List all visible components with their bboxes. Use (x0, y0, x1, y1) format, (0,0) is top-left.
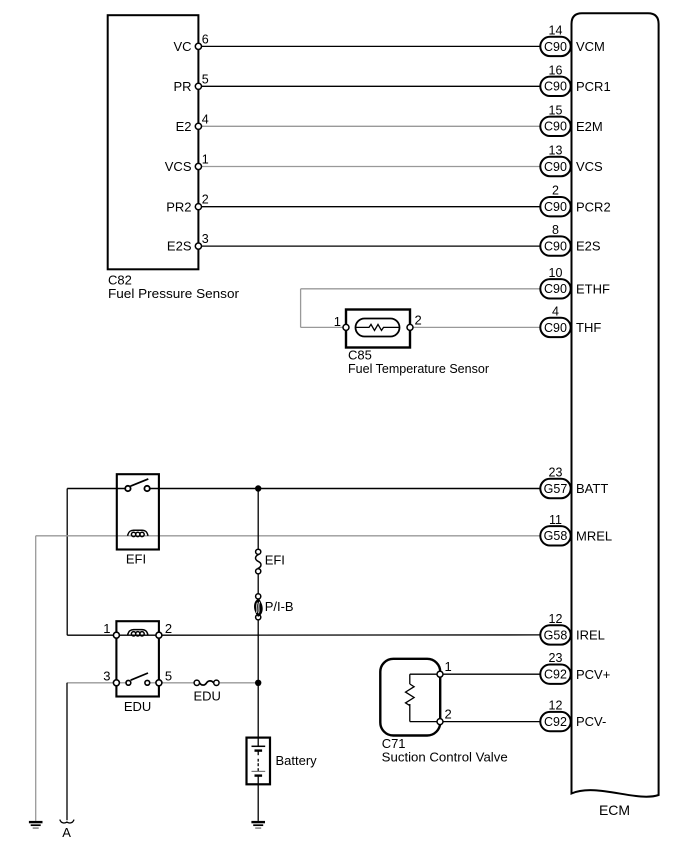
svg-text:EDU: EDU (193, 689, 220, 704)
svg-text:2: 2 (415, 313, 422, 328)
svg-text:Fuel Temperature Sensor: Fuel Temperature Sensor (348, 361, 490, 376)
svg-text:1: 1 (202, 153, 209, 167)
svg-text:P/I-B: P/I-B (265, 599, 294, 614)
svg-text:3: 3 (202, 232, 209, 246)
svg-text:EFI: EFI (265, 552, 285, 567)
svg-text:E2S: E2S (576, 239, 601, 254)
svg-text:C90: C90 (544, 282, 567, 296)
svg-text:4: 4 (202, 112, 209, 126)
svg-text:C90: C90 (544, 160, 567, 174)
svg-text:10: 10 (549, 266, 563, 280)
svg-text:3: 3 (103, 669, 110, 684)
svg-text:15: 15 (549, 103, 563, 117)
svg-text:5: 5 (202, 72, 209, 86)
svg-text:E2M: E2M (576, 119, 603, 134)
svg-text:C90: C90 (544, 321, 567, 335)
svg-text:E2: E2 (176, 119, 192, 134)
svg-text:12: 12 (549, 612, 563, 626)
svg-text:11: 11 (549, 513, 562, 527)
svg-text:EFI: EFI (126, 552, 146, 567)
svg-text:C90: C90 (544, 240, 567, 254)
svg-text:1: 1 (103, 621, 110, 636)
svg-text:E2S: E2S (167, 239, 192, 254)
svg-text:C92: C92 (544, 668, 567, 682)
svg-text:C92: C92 (544, 715, 567, 729)
svg-text:16: 16 (549, 63, 563, 77)
svg-text:PCR1: PCR1 (576, 79, 611, 94)
svg-text:VC: VC (173, 39, 191, 54)
svg-text:THF: THF (576, 320, 601, 335)
svg-text:5: 5 (165, 669, 172, 684)
svg-text:C90: C90 (544, 80, 567, 94)
svg-text:VCS: VCS (576, 159, 603, 174)
svg-text:1: 1 (334, 314, 341, 329)
svg-text:13: 13 (549, 144, 563, 158)
svg-text:G57: G57 (544, 482, 568, 496)
svg-text:VCM: VCM (576, 39, 605, 54)
svg-text:VCS: VCS (165, 159, 192, 174)
svg-text:C90: C90 (544, 40, 567, 54)
svg-text:A: A (62, 825, 71, 840)
svg-text:G58: G58 (544, 529, 568, 543)
svg-text:C90: C90 (544, 120, 567, 134)
svg-text:IREL: IREL (576, 628, 605, 643)
svg-text:PR2: PR2 (166, 199, 191, 214)
svg-text:23: 23 (549, 466, 563, 480)
svg-text:2: 2 (552, 184, 559, 198)
svg-text:C90: C90 (544, 200, 567, 214)
svg-text:2: 2 (202, 193, 209, 207)
svg-text:23: 23 (549, 651, 563, 665)
svg-text:14: 14 (549, 23, 563, 37)
svg-text:MREL: MREL (576, 528, 612, 543)
svg-text:EDU: EDU (124, 699, 151, 714)
svg-text:BATT: BATT (576, 481, 608, 496)
svg-text:ECM: ECM (599, 802, 630, 818)
svg-text:1: 1 (445, 659, 452, 674)
svg-text:Battery: Battery (276, 753, 318, 768)
svg-text:4: 4 (552, 304, 559, 318)
svg-text:2: 2 (445, 707, 452, 722)
svg-text:2: 2 (165, 621, 172, 636)
svg-text:Fuel Pressure Sensor: Fuel Pressure Sensor (108, 286, 240, 301)
svg-text:12: 12 (549, 699, 563, 713)
svg-text:Suction Control Valve: Suction Control Valve (382, 749, 508, 764)
svg-text:PR: PR (173, 79, 191, 94)
svg-text:G58: G58 (544, 628, 568, 642)
svg-text:ETHF: ETHF (576, 281, 610, 296)
svg-text:PCV+: PCV+ (576, 667, 610, 682)
svg-text:8: 8 (552, 223, 559, 237)
svg-text:PCR2: PCR2 (576, 199, 611, 214)
svg-text:PCV-: PCV- (576, 714, 606, 729)
svg-text:6: 6 (202, 32, 209, 46)
